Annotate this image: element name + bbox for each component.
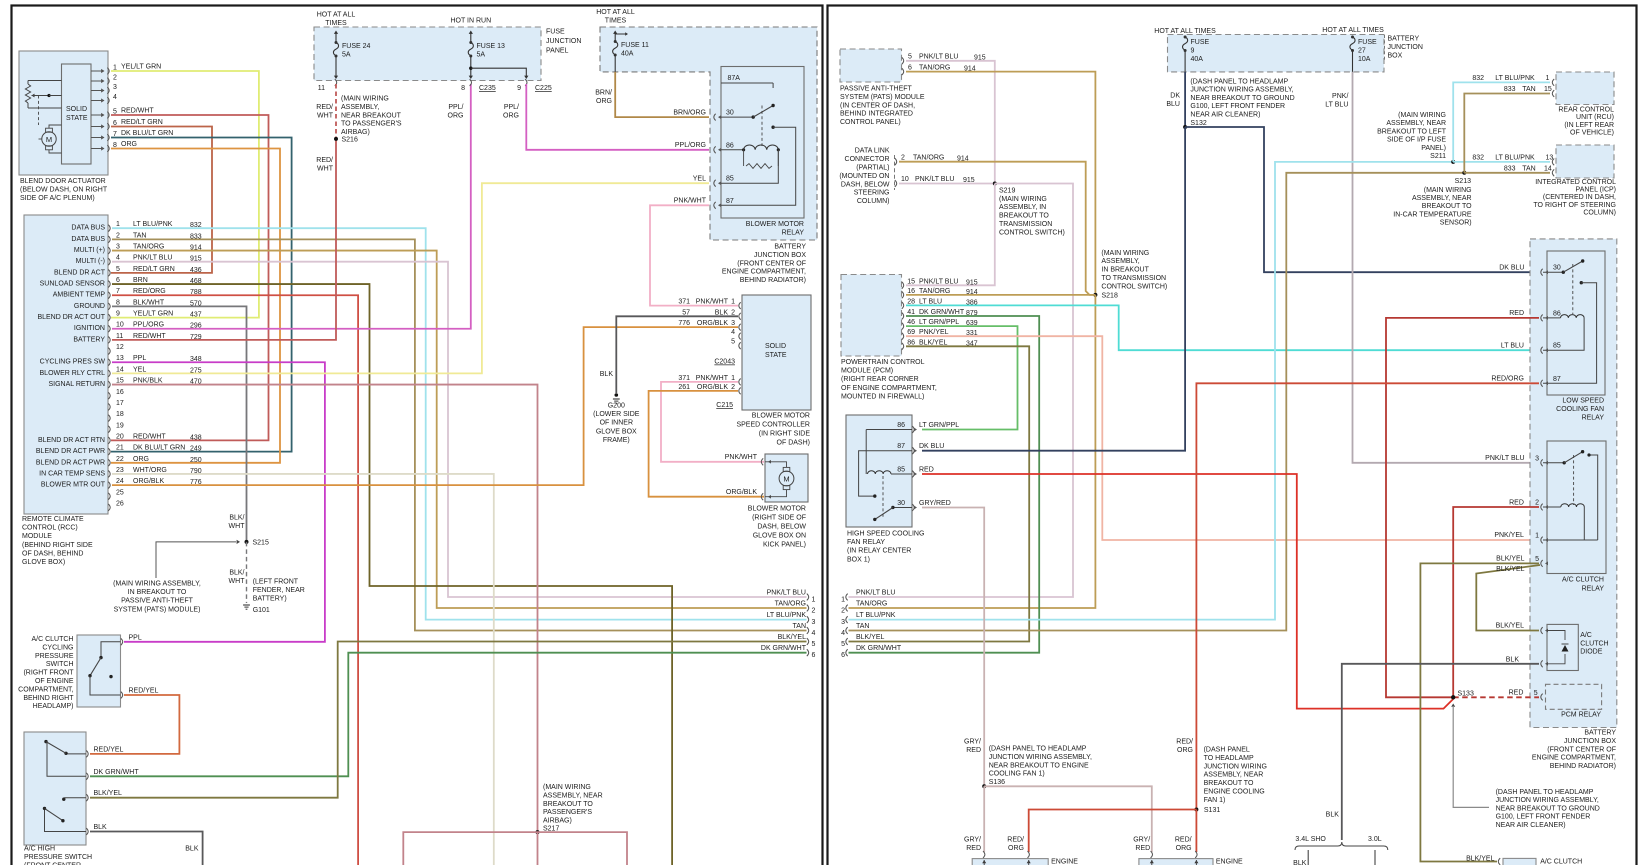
svg-text:TAN/ORG: TAN/ORG	[913, 154, 944, 161]
svg-text:SYSTEM (PATS) MODULE: SYSTEM (PATS) MODULE	[840, 94, 925, 101]
svg-text:JUNCTION WIRING ASSEMBLY,: JUNCTION WIRING ASSEMBLY,	[989, 754, 1092, 761]
svg-text:RED: RED	[966, 747, 981, 754]
svg-text:BREAKOUT TO: BREAKOUT TO	[543, 801, 593, 808]
wire BLK high pressure sw to bottom	[90, 832, 203, 865]
battery junction box (left panel, dashed outline)	[596, 9, 817, 284]
svg-text:3: 3	[116, 244, 120, 251]
svg-text:JUNCTION BOX: JUNCTION BOX	[1564, 738, 1616, 745]
svg-text:833: 833	[1504, 86, 1516, 93]
svg-text:(MAIN WIRING: (MAIN WIRING	[1424, 187, 1472, 194]
svg-text:YEL: YEL	[693, 176, 706, 183]
wire RED S133 to AC relay 2	[1453, 507, 1539, 697]
svg-text:S211: S211	[1430, 153, 1446, 160]
svg-text:19: 19	[116, 422, 124, 429]
svg-text:BATTERY: BATTERY	[1388, 36, 1420, 43]
svg-text:INTEGRATED CONTROL: INTEGRATED CONTROL	[1535, 179, 1616, 186]
svg-text:438: 438	[190, 434, 202, 441]
svg-text:PNK/LT BLU: PNK/LT BLU	[767, 590, 806, 597]
svg-text:ORG: ORG	[448, 113, 464, 120]
svg-text:(IN RIGHT SIDE: (IN RIGHT SIDE	[759, 431, 811, 438]
svg-text:ENGINE: ENGINE	[1216, 859, 1243, 865]
splice S216	[334, 96, 402, 144]
svg-text:COLUMN): COLUMN)	[1583, 210, 1616, 217]
svg-text:22: 22	[116, 456, 124, 463]
svg-text:COLUMN): COLUMN)	[857, 198, 890, 205]
svg-text:AMBIENT TEMP: AMBIENT TEMP	[53, 292, 106, 299]
svg-text:RED: RED	[1135, 845, 1150, 852]
svg-text:MODULE (PCM): MODULE (PCM)	[841, 368, 893, 375]
svg-text:(MAIN WIRING: (MAIN WIRING	[1398, 112, 1446, 119]
wire BLK/YEL high pressure sw row5	[90, 642, 807, 798]
svg-text:GLOVE BOX): GLOVE BOX)	[22, 559, 65, 566]
svg-text:(IN CENTER OF DASH,: (IN CENTER OF DASH,	[840, 102, 915, 109]
svg-text:(RIGHT FRONT: (RIGHT FRONT	[23, 670, 74, 677]
svg-text:437: 437	[190, 312, 202, 319]
svg-text:(RIGHT REAR CORNER: (RIGHT REAR CORNER	[841, 376, 919, 383]
svg-text:BLK: BLK	[94, 824, 108, 831]
svg-text:RED: RED	[966, 845, 981, 852]
svg-text:87: 87	[897, 443, 905, 450]
svg-text:(FRONT CENTER OF: (FRONT CENTER OF	[737, 260, 806, 267]
wire PNK/YEL 331 PCM69 to AC relay 1	[906, 336, 1539, 540]
battery junction box strip (top right)	[1154, 27, 1423, 72]
svg-text:FUSE 13: FUSE 13	[477, 43, 506, 50]
svg-text:TIMES: TIMES	[325, 20, 347, 27]
A/C clutch connector at bottom edge	[1498, 858, 1582, 865]
svg-text:G100, LEFT FRONT FENDER: G100, LEFT FRONT FENDER	[1496, 814, 1591, 821]
svg-text:BLOWER MOTOR: BLOWER MOTOR	[748, 506, 806, 513]
svg-text:RELAY: RELAY	[1582, 415, 1605, 422]
svg-text:HEADLAMP): HEADLAMP)	[33, 703, 74, 710]
svg-text:18: 18	[116, 411, 124, 418]
svg-text:C2043: C2043	[714, 359, 735, 366]
wire RED/LT GRN actuator pin6 to RCC pin5	[111, 127, 212, 273]
svg-text:S218: S218	[1102, 293, 1118, 300]
svg-text:RED/WHT: RED/WHT	[133, 433, 166, 440]
svg-text:17: 17	[116, 400, 124, 407]
svg-text:HOT AT ALL TIMES: HOT AT ALL TIMES	[1154, 28, 1216, 35]
wire BRN 468 RCC pin6 sunload sensor	[112, 284, 672, 865]
svg-text:LT BLU/PNK: LT BLU/PNK	[856, 612, 896, 619]
wire RED/WHT 729 RCC pin11 battery from S216	[112, 139, 336, 340]
svg-text:BLOWER MTR OUT: BLOWER MTR OUT	[41, 482, 106, 489]
svg-text:ASSEMBLY,: ASSEMBLY,	[1101, 258, 1139, 265]
svg-text:PPL: PPL	[133, 355, 146, 362]
svg-text:69: 69	[907, 329, 915, 336]
motor M (blend door actuator)	[39, 125, 62, 153]
splice S211	[1377, 112, 1455, 164]
svg-text:PANEL): PANEL)	[1421, 145, 1446, 152]
svg-text:TO HEADLAMP: TO HEADLAMP	[1204, 755, 1254, 762]
svg-text:LT BLU/PNK: LT BLU/PNK	[767, 612, 807, 619]
svg-text:PNK/WHT: PNK/WHT	[696, 375, 729, 382]
actuator pin stubs and connectors 1-8	[91, 65, 117, 152]
svg-text:86: 86	[726, 142, 734, 149]
svg-text:LT BLU/PNK: LT BLU/PNK	[133, 221, 173, 228]
svg-text:LT BLU/PNK: LT BLU/PNK	[1495, 75, 1535, 82]
svg-text:CONTROL SWITCH): CONTROL SWITCH)	[999, 229, 1065, 236]
wire RED/WHT fuse24 to splice S216 (dashed)	[316, 84, 336, 173]
rear control unit (RCU)	[1552, 72, 1614, 137]
wire PNK/BLK S217 branch right	[538, 832, 628, 865]
svg-text:PNK/LT BLU: PNK/LT BLU	[133, 255, 172, 262]
wire GRY/RED HS relay 30 to S136	[922, 508, 984, 787]
svg-text:21: 21	[116, 445, 124, 452]
svg-text:915: 915	[966, 279, 978, 286]
svg-text:TAN/ORG: TAN/ORG	[133, 244, 164, 251]
svg-text:PNK/LT BLU: PNK/LT BLU	[919, 278, 958, 285]
svg-text:BLK: BLK	[600, 371, 614, 378]
wire TAN/ORG 914 PATS to S218	[906, 72, 1095, 295]
svg-text:ASSEMBLY, NEAR: ASSEMBLY, NEAR	[1412, 195, 1472, 202]
svg-text:30: 30	[897, 500, 905, 507]
svg-text:PNK/LT BLU: PNK/LT BLU	[856, 590, 895, 597]
svg-text:3: 3	[841, 619, 845, 626]
svg-text:WHT/ORG: WHT/ORG	[133, 467, 167, 474]
svg-text:(PARTIAL): (PARTIAL)	[856, 165, 889, 172]
svg-text:BLEND DR ACT PWR: BLEND DR ACT PWR	[36, 448, 105, 455]
svg-text:1: 1	[841, 597, 845, 604]
svg-text:KICK PANEL): KICK PANEL)	[763, 542, 806, 549]
wire RED LS relay 86 to S133	[1386, 318, 1539, 697]
svg-text:BLK/YEL: BLK/YEL	[1466, 855, 1495, 862]
svg-text:2: 2	[901, 154, 905, 161]
svg-text:FUSE: FUSE	[546, 29, 565, 36]
wire TAN 833 RCC pin2 to row4	[112, 239, 807, 630]
svg-text:PNK/YEL: PNK/YEL	[1494, 532, 1524, 539]
fuse junction panel box	[314, 12, 581, 81]
splice S136	[964, 739, 1092, 789]
svg-text:DK BLU: DK BLU	[1499, 265, 1524, 272]
svg-text:FAN RELAY: FAN RELAY	[847, 539, 885, 546]
svg-text:(IN LEFT REAR: (IN LEFT REAR	[1564, 122, 1614, 129]
svg-text:GRY/: GRY/	[1133, 837, 1150, 844]
svg-text:RED: RED	[919, 467, 934, 474]
svg-text:15: 15	[116, 378, 124, 385]
svg-text:776: 776	[678, 320, 690, 327]
svg-text:ORG: ORG	[1008, 845, 1024, 852]
svg-text:PPL/: PPL/	[504, 104, 519, 111]
wire YEL/LT GRN actuator pin1 to RCC pin9	[111, 71, 259, 318]
svg-text:RED/ORG: RED/ORG	[1491, 376, 1524, 383]
wire BLK/WHT 570 RCC pin8 ground lead	[112, 306, 247, 542]
svg-text:NEAR BREAKOUT TO ENGINE: NEAR BREAKOUT TO ENGINE	[989, 762, 1089, 769]
svg-text:(LEFT FRONT: (LEFT FRONT	[253, 579, 299, 586]
svg-text:4: 4	[731, 329, 735, 336]
svg-text:BLK/YEL: BLK/YEL	[856, 634, 885, 641]
svg-text:FUSE: FUSE	[1358, 39, 1377, 46]
svg-text:11: 11	[116, 333, 123, 340]
wire BLK/YEL A/C relay 5 from bottom	[1420, 563, 1539, 862]
svg-text:7: 7	[116, 288, 120, 295]
svg-text:6: 6	[116, 277, 120, 284]
svg-text:FENDER, NEAR: FENDER, NEAR	[253, 587, 305, 594]
svg-text:ORG: ORG	[1176, 845, 1192, 852]
svg-text:5: 5	[841, 641, 845, 648]
svg-text:LT BLU/PNK: LT BLU/PNK	[1495, 154, 1535, 161]
svg-text:S132: S132	[1190, 120, 1206, 127]
svg-text:5: 5	[812, 641, 816, 648]
svg-text:BREAKOUT TO: BREAKOUT TO	[1422, 203, 1472, 210]
svg-text:10: 10	[116, 322, 124, 329]
svg-text:YEL/LT GRN: YEL/LT GRN	[121, 64, 161, 71]
splice S219	[993, 182, 1065, 237]
svg-text:(LOWER SIDE: (LOWER SIDE	[593, 411, 640, 418]
svg-text:IN-CAR TEMPERATURE: IN-CAR TEMPERATURE	[1393, 211, 1472, 218]
wire GRY/RED S136 to fan1	[964, 786, 984, 852]
svg-text:HIGH SPEED COOLING: HIGH SPEED COOLING	[847, 531, 924, 538]
svg-text:RED: RED	[1509, 690, 1524, 697]
svg-text:NEAR BREAKOUT: NEAR BREAKOUT	[341, 112, 402, 119]
svg-text:(FRONT CENTER OF: (FRONT CENTER OF	[1547, 746, 1616, 753]
svg-text:3.0L: 3.0L	[1368, 836, 1382, 843]
svg-text:OF ENGINE: OF ENGINE	[35, 678, 74, 685]
svg-text:3: 3	[1535, 455, 1539, 462]
wire BLK/WHT S215 to ground G101 (dashed)	[229, 542, 247, 603]
svg-text:ENGINE COMPARTMENT,: ENGINE COMPARTMENT,	[1532, 755, 1616, 762]
svg-text:CYCLING PRES SW: CYCLING PRES SW	[40, 359, 106, 366]
svg-text:371: 371	[678, 299, 690, 306]
wire PPL/ORG C225 to blower relay 86	[448, 84, 709, 150]
svg-text:PASSENGER'S: PASSENGER'S	[543, 809, 592, 816]
fuse F24 5A	[318, 31, 371, 93]
svg-text:FUSE 11: FUSE 11	[621, 42, 649, 49]
data link connector (partial)	[839, 148, 974, 205]
svg-text:G100, LEFT FRONT FENDER: G100, LEFT FRONT FENDER	[1190, 103, 1285, 110]
svg-text:RED/LT GRN: RED/LT GRN	[121, 119, 163, 126]
svg-text:G200: G200	[608, 403, 625, 410]
left panel frame	[12, 6, 823, 865]
svg-text:28: 28	[907, 298, 915, 305]
wire LT BLU/PNK 832 row3 to S211	[849, 162, 1454, 620]
svg-text:JUNCTION WIRING: JUNCTION WIRING	[1204, 763, 1267, 770]
svg-text:LT BLU: LT BLU	[1501, 343, 1524, 350]
engine variant bracket 3.4L SHO / 3.0L	[1293, 836, 1388, 865]
svg-text:RED/: RED/	[1176, 739, 1193, 746]
svg-text:BLK/YEL: BLK/YEL	[778, 634, 807, 641]
svg-text:BLK/YEL: BLK/YEL	[94, 790, 123, 797]
svg-text:POWERTRAIN CONTROL: POWERTRAIN CONTROL	[841, 359, 925, 366]
svg-text:FRAME): FRAME)	[603, 437, 630, 444]
svg-text:BLEND DR ACT OUT: BLEND DR ACT OUT	[37, 314, 105, 321]
wire TAN 833 row4 to S213	[849, 173, 1465, 631]
wire LT BLU/PNK 832 S211 to ICP pin13	[1453, 154, 1553, 162]
svg-text:PPL/ORG: PPL/ORG	[133, 322, 164, 329]
splice S218	[1093, 250, 1167, 300]
svg-text:WHT: WHT	[229, 578, 246, 585]
svg-text:436: 436	[190, 267, 202, 274]
svg-text:87A: 87A	[728, 75, 741, 82]
svg-text:GLOVE BOX: GLOVE BOX	[596, 428, 637, 435]
svg-text:JUNCTION WIRING ASSEMBLY,: JUNCTION WIRING ASSEMBLY,	[1190, 87, 1293, 94]
svg-text:BLK: BLK	[185, 846, 199, 853]
wire RED/ORG 788 RCC pin7 ambient temp	[112, 295, 358, 865]
svg-text:DK GRN/WHT: DK GRN/WHT	[919, 309, 965, 316]
svg-text:PPL/ORG: PPL/ORG	[675, 142, 706, 149]
wire RED/WHT actuator pin5 to RCC pin20	[111, 115, 269, 440]
wire BRN/ORG fuse11 to blower relay 30	[595, 72, 709, 117]
wire RED HS relay 85 to S133	[922, 474, 1453, 709]
svg-text:2: 2	[116, 232, 120, 239]
svg-text:HOT AT ALL: HOT AT ALL	[596, 9, 635, 16]
blower motor speed controller (solid state)	[678, 295, 811, 447]
svg-text:(MAIN WIRING: (MAIN WIRING	[1101, 250, 1149, 257]
svg-text:BRN: BRN	[133, 277, 148, 284]
svg-text:A/C CLUTCH: A/C CLUTCH	[1540, 859, 1582, 865]
caption blend door actuator	[20, 178, 108, 202]
svg-text:(BEHIND RIGHT SIDE: (BEHIND RIGHT SIDE	[22, 542, 93, 549]
wire PNK/LT BLU 915 PATS to S219	[906, 61, 995, 184]
svg-text:16: 16	[907, 288, 915, 295]
svg-text:1: 1	[1546, 75, 1550, 82]
svg-text:IN CAR TEMP SENS: IN CAR TEMP SENS	[39, 470, 105, 477]
svg-text:OF VEHICLE): OF VEHICLE)	[1570, 130, 1614, 137]
svg-text:PRESSURE SWITCH: PRESSURE SWITCH	[24, 854, 92, 861]
svg-text:BLK/YEL: BLK/YEL	[1496, 556, 1525, 563]
A/C clutch diode	[1541, 624, 1609, 670]
svg-text:87: 87	[726, 198, 734, 205]
svg-text:2: 2	[1535, 500, 1539, 507]
svg-text:M: M	[46, 135, 52, 144]
splice S213	[1393, 171, 1472, 227]
svg-text:DATA LINK: DATA LINK	[855, 148, 890, 155]
svg-text:PASSIVE ANTI-THEFT: PASSIVE ANTI-THEFT	[840, 86, 913, 93]
svg-text:11: 11	[318, 85, 325, 92]
svg-text:(MAIN WIRING: (MAIN WIRING	[341, 96, 389, 103]
svg-text:ORG/BLK: ORG/BLK	[133, 478, 164, 485]
svg-text:ORG: ORG	[121, 141, 137, 148]
svg-text:3: 3	[731, 320, 735, 327]
svg-text:CONTROL (RCC): CONTROL (RCC)	[22, 525, 78, 532]
svg-text:WHT: WHT	[317, 113, 334, 120]
svg-text:41: 41	[907, 309, 915, 316]
svg-text:BLK/: BLK/	[229, 570, 244, 577]
svg-text:TAN: TAN	[1522, 165, 1535, 172]
svg-text:IN BREAKOUT TO: IN BREAKOUT TO	[128, 589, 187, 596]
svg-text:3.4L SHO: 3.4L SHO	[1295, 836, 1326, 843]
svg-text:40A: 40A	[621, 51, 634, 58]
svg-text:5: 5	[1534, 690, 1538, 697]
svg-text:BLK/YEL: BLK/YEL	[1496, 566, 1525, 573]
wire RED/ORG LS relay 87 to S131	[1196, 383, 1539, 809]
wire DK BLU fuse9 to splice S132	[1166, 72, 1185, 127]
wire BLK/YEL 347 PCM86 to row5	[849, 346, 1030, 641]
svg-text:DASH, BELOW: DASH, BELOW	[757, 524, 806, 531]
svg-text:RED/LT GRN: RED/LT GRN	[133, 266, 175, 273]
splice S133	[1451, 691, 1474, 707]
engine cooling fan motor 2	[1139, 851, 1243, 865]
svg-text:20: 20	[116, 433, 124, 440]
svg-text:250: 250	[190, 457, 202, 464]
svg-text:BLOWER RLY CTRL: BLOWER RLY CTRL	[40, 370, 106, 377]
svg-text:ORG: ORG	[133, 456, 149, 463]
A/C clutch relay	[1485, 441, 1606, 592]
svg-text:CYCLING: CYCLING	[42, 644, 73, 651]
svg-text:SUNLOAD SENSOR: SUNLOAD SENSOR	[40, 281, 105, 288]
wire from S133 to dash panel assembly note	[1453, 706, 1600, 829]
svg-text:5A: 5A	[477, 52, 486, 59]
wire LT BLU/PNK 832 S211 to RCU pin1	[1453, 75, 1550, 162]
engine cooling fan motor 1	[972, 851, 1078, 865]
wire PNK/BLK 470 RCC pin15 to S217	[112, 385, 538, 833]
svg-text:PNK/BLK: PNK/BLK	[133, 378, 163, 385]
svg-text:ASSEMBLY, IN: ASSEMBLY, IN	[999, 204, 1046, 211]
svg-text:DK GRN/WHT: DK GRN/WHT	[856, 645, 902, 652]
svg-text:(MAIN WIRING ASSEMBLY,: (MAIN WIRING ASSEMBLY,	[113, 581, 201, 588]
svg-text:9: 9	[116, 311, 120, 318]
svg-text:PNK/WHT: PNK/WHT	[674, 198, 707, 205]
svg-text:PPL: PPL	[129, 635, 142, 642]
svg-text:9: 9	[1191, 48, 1195, 55]
svg-text:WHT: WHT	[317, 166, 334, 173]
svg-text:FUSE 24: FUSE 24	[342, 43, 371, 50]
svg-text:RED/ORG: RED/ORG	[133, 288, 166, 295]
svg-text:TAN/ORG: TAN/ORG	[775, 601, 806, 608]
svg-text:1: 1	[1535, 533, 1539, 540]
wire RED dashed S133 to PCM relay 5	[1453, 690, 1539, 698]
svg-text:15: 15	[907, 278, 915, 285]
svg-text:8: 8	[461, 85, 465, 92]
svg-text:914: 914	[966, 289, 978, 296]
svg-text:2: 2	[731, 384, 735, 391]
svg-text:CONTROL PANEL): CONTROL PANEL)	[840, 119, 901, 126]
svg-text:249: 249	[190, 446, 202, 453]
splice S132	[1183, 79, 1295, 130]
svg-text:ORG/BLK: ORG/BLK	[697, 320, 728, 327]
fuse F11 40A	[613, 31, 649, 72]
svg-text:BREAKOUT TO: BREAKOUT TO	[1204, 780, 1254, 787]
svg-text:JUNCTION: JUNCTION	[1388, 44, 1423, 51]
svg-text:12: 12	[116, 344, 124, 351]
svg-text:PANEL (ICP): PANEL (ICP)	[1576, 187, 1616, 194]
svg-text:(DASH PANEL TO HEADLAMP: (DASH PANEL TO HEADLAMP	[989, 746, 1087, 753]
svg-text:PNK/LT BLU: PNK/LT BLU	[1485, 455, 1524, 462]
svg-text:(DASH PANEL TO HEADLAMP: (DASH PANEL TO HEADLAMP	[1496, 789, 1594, 796]
fuse F27 10A	[1350, 36, 1377, 72]
svg-text:PNK/LT BLU: PNK/LT BLU	[915, 176, 954, 183]
svg-text:BLK/: BLK/	[229, 515, 244, 522]
svg-text:BLK/YEL: BLK/YEL	[919, 339, 948, 346]
svg-text:S215: S215	[253, 540, 269, 547]
wire PNK/LT BLU 915 DLC to S219	[899, 183, 995, 185]
wire RED/ORG S131 to fan2	[1175, 810, 1197, 853]
passive anti-theft system (PATS) module	[840, 49, 986, 126]
svg-text:(DASH PANEL TO HEADLAMP: (DASH PANEL TO HEADLAMP	[1190, 79, 1288, 86]
svg-text:BLEND DR ACT: BLEND DR ACT	[54, 269, 106, 276]
wire ORG actuator pin8 to RCC pin22	[111, 149, 280, 463]
svg-text:1: 1	[731, 299, 735, 306]
svg-text:A/C CLUTCH: A/C CLUTCH	[31, 636, 73, 643]
svg-text:RED/YEL: RED/YEL	[129, 688, 159, 695]
A/C clutch cycling pressure switch	[18, 635, 158, 711]
powertrain control module (PCM)	[841, 275, 978, 401]
resistor (blend door position feedback)	[25, 81, 61, 126]
svg-text:BLEND DR ACT PWR: BLEND DR ACT PWR	[36, 459, 105, 466]
wire ORG/BLK 776 RCC pin24 to controller pin3	[112, 327, 738, 485]
svg-text:RED/: RED/	[316, 104, 333, 111]
svg-text:SENSOR): SENSOR)	[1440, 220, 1472, 227]
remote climate control (RCC) module	[24, 215, 108, 514]
svg-text:4: 4	[841, 630, 845, 637]
svg-text:13: 13	[116, 355, 124, 362]
svg-text:(IN RELAY CENTER: (IN RELAY CENTER	[847, 548, 911, 555]
wire DK BLU S132 to HS relay 87	[922, 127, 1185, 451]
svg-text:ENGINE COMPARTMENT,: ENGINE COMPARTMENT,	[722, 269, 806, 276]
wire DK BLU S132 to LS relay 30	[1185, 127, 1539, 272]
svg-text:BATTERY: BATTERY	[1584, 730, 1616, 737]
svg-text:REMOTE CLIMATE: REMOTE CLIMATE	[22, 516, 84, 523]
svg-text:PNK/WHT: PNK/WHT	[725, 454, 758, 461]
